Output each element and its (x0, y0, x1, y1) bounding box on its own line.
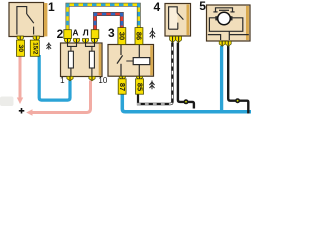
pin arrows relay bottom (119, 76, 143, 79)
motor 5 housing (209, 18, 242, 32)
wire cyan drop from motor 5 to bus (220, 46, 223, 111)
ground bolt dot right (235, 98, 240, 103)
wire yellow-cyan dashed from fuse A to relay 86 (68, 5, 139, 30)
pin arrows switch 4 (170, 36, 182, 42)
wire pink from fuse pin 10 to battery plus (26, 81, 90, 116)
relay 3 box (108, 45, 154, 77)
pin arrow fuse output 10 (89, 76, 95, 80)
wire black-white dashed from relay 85 to switch 4 (137, 43, 173, 105)
wire cyan from ignition 15/2 to fuse pin 1 (39, 55, 70, 100)
ground symbol near relay 86 (150, 28, 155, 39)
ground symbol near relay 85 (150, 81, 155, 90)
pin wires relay bottom (122, 76, 139, 79)
relay 3 coil (126, 45, 150, 76)
svg-text:30: 30 (17, 45, 24, 53)
fuse box 2 (61, 43, 103, 77)
svg-text:5: 5 (199, 0, 206, 13)
svg-text:15/2: 15/2 (31, 42, 38, 55)
svg-text:Л: Л (83, 28, 89, 38)
wire pink from ignition 30 to battery plus (17, 55, 23, 104)
svg-text:А: А (72, 28, 78, 38)
svg-text:85: 85 (136, 83, 145, 91)
motor 5 brush bracket (213, 8, 234, 12)
ground symbol near 15/2 (47, 42, 52, 49)
pin arrow fuse output 1 (67, 76, 73, 80)
pin arrows on fuse box top (64, 39, 97, 44)
wire red-blue dashed from fuse L to relay 30 (95, 14, 122, 30)
terminal tag 30 of ignition (17, 40, 25, 56)
svg-text:1: 1 (60, 76, 65, 85)
svg-text:1: 1 (48, 0, 55, 14)
terminal tag 86 of relay (134, 28, 143, 45)
svg-text:30: 30 (117, 32, 126, 40)
wire black from motor 5 to ground bolt (228, 46, 248, 114)
wire black from relay 85 (137, 94, 139, 103)
pin arrow under ignition right (33, 36, 39, 41)
relay 3 switch contact (117, 45, 123, 76)
battery plus symbol (19, 108, 25, 114)
svg-text:10: 10 (98, 76, 107, 85)
ground bolt dot left (184, 99, 189, 104)
wire cyan bus from relay 87 to motor 5 (122, 94, 251, 112)
pin arrows motor 5 (219, 41, 231, 46)
terminal tag 85 of relay (136, 79, 145, 94)
svg-text:87: 87 (118, 83, 127, 91)
pin wires on fuse box top (68, 39, 95, 46)
motor 5 box (207, 5, 251, 41)
pin wires switch 4 (173, 37, 179, 42)
motor 5 internal bottom wires (208, 31, 249, 40)
terminal tag A of fuse box (64, 30, 72, 39)
svg-text:4: 4 (154, 0, 161, 14)
motor 5 armature circle (215, 12, 232, 25)
fuse F1 (68, 43, 77, 76)
svg-text:86: 86 (134, 32, 143, 40)
svg-text:3: 3 (108, 26, 115, 40)
terminal tag 15/2 of ignition (30, 40, 39, 56)
svg-text:2: 2 (57, 27, 64, 41)
switch 4 box (165, 4, 191, 37)
ignition switch 1 box (9, 3, 47, 37)
faint watermark smudge (0, 97, 14, 107)
terminal tag L of fuse box (91, 30, 99, 39)
wire black from switch 4 to ground bolt (178, 43, 194, 109)
pin wires motor 5 (222, 41, 228, 45)
fuse F2 (86, 43, 95, 76)
terminal tag 87 of relay (118, 79, 127, 94)
terminal tag 30 of relay (117, 28, 126, 45)
ignition switch 1 contacts symbol (17, 7, 34, 35)
switch 4 contact symbol (169, 7, 184, 29)
pin arrow under ignition left (17, 36, 23, 41)
